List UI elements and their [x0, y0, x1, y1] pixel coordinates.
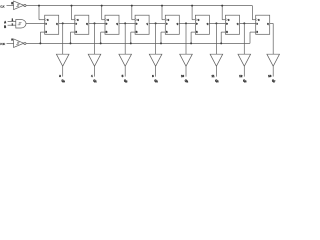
- wire Q1 from FF2: [89, 22, 105, 24]
- junction Q6 tap: [243, 22, 245, 24]
- junction clock bus / FF7: [221, 5, 223, 7]
- svg-text:D: D: [256, 23, 258, 25]
- wire buffer to pad Q2: [124, 66, 126, 76]
- svg-text:Q: Q: [116, 23, 118, 25]
- svg-text:C: C: [137, 20, 139, 22]
- pin 3 (Q0): [59, 74, 61, 78]
- inverter U3 (reset Schmitt inverter): [14, 39, 24, 48]
- buffer U1 (clock Schmitt buffer): [14, 1, 24, 10]
- node Q1 label: [93, 79, 96, 84]
- wire clock tap to FF1 CP: [39, 6, 45, 20]
- junction reset bus / FF4: [130, 42, 132, 44]
- output buffer U7: [149, 54, 162, 66]
- node Q0 label: [61, 79, 64, 84]
- flip-flop FF4: [135, 15, 149, 34]
- wire clock tap to FF2 CP: [72, 6, 75, 20]
- flip-flop FF5: [165, 15, 179, 34]
- wire clock tap to FF4 CP: [132, 6, 135, 20]
- svg-text:R: R: [226, 32, 228, 34]
- input CLK: [0, 4, 5, 8]
- flip-flop FF6: [195, 15, 209, 34]
- pin 9 (MR): [11, 37, 13, 41]
- wire reset tap to FF6 R: [191, 32, 195, 43]
- svg-text:D: D: [136, 23, 138, 25]
- svg-text:R: R: [106, 32, 108, 34]
- svg-text:R: R: [196, 32, 198, 34]
- junction clock bus / FF4: [131, 5, 133, 7]
- junction Q1 tap: [94, 22, 96, 24]
- node Q4 label: [185, 79, 189, 84]
- svg-text:Q2: Q2: [124, 79, 127, 83]
- junction reset bus / FF3: [100, 42, 102, 44]
- svg-text:R: R: [45, 32, 47, 34]
- svg-text:R: R: [76, 32, 78, 34]
- junction reset bus / FF7: [220, 42, 222, 44]
- svg-text:CLK: CLK: [0, 4, 5, 8]
- svg-text:Q7: Q7: [272, 79, 275, 83]
- svg-text:C: C: [47, 20, 49, 22]
- wire Q1 down to output buffer: [94, 23, 96, 54]
- wire Q2 from FF3: [119, 22, 135, 24]
- junction clock bus / FF6: [191, 5, 193, 7]
- wire Q7 from FF8: [270, 22, 274, 24]
- wire buffer to pad Q3: [155, 66, 157, 76]
- svg-text:Q: Q: [237, 23, 239, 25]
- junction Q2 tap: [124, 22, 126, 24]
- svg-text:D: D: [226, 23, 228, 25]
- junction Q0 tap: [62, 22, 64, 24]
- node Q6 label: [243, 79, 246, 84]
- wire Q3 down to output buffer: [155, 23, 157, 54]
- svg-text:C: C: [228, 20, 230, 22]
- wire clock tap to FF5 CP: [162, 6, 165, 20]
- wire A to AND gate: [8, 21, 16, 23]
- wire buffer to pad Q0: [62, 66, 64, 76]
- svg-text:Q4: Q4: [185, 79, 189, 83]
- svg-text:Q3: Q3: [154, 79, 157, 83]
- wire clock tap to FF6 CP: [192, 6, 195, 20]
- wire clock tap to FF3 CP: [102, 6, 105, 20]
- wire buffer to pad Q5: [215, 66, 217, 76]
- junction clock bus / FF1: [38, 5, 40, 7]
- svg-text:Q6: Q6: [243, 79, 246, 83]
- junction reset bus / FF1: [39, 42, 41, 44]
- bubble on U1 output: [24, 4, 26, 6]
- svg-text:C: C: [258, 20, 260, 22]
- wire AND gate to FF1 D: [26, 22, 45, 24]
- flip-flop FF8: [256, 15, 270, 34]
- svg-text:12: 12: [239, 74, 243, 78]
- wire buffer to pad Q4: [185, 66, 187, 76]
- wire Q5 down to output buffer: [215, 23, 217, 54]
- output buffer U4: [56, 54, 69, 66]
- pin 1 (A): [12, 18, 14, 22]
- pin 2 (B): [12, 22, 14, 26]
- wire CLK to buffer U1: [7, 5, 14, 7]
- junction clock bus / FF2: [71, 5, 73, 7]
- junction Q3 tap: [155, 22, 157, 24]
- pin 11 (Q5): [211, 74, 215, 78]
- junction clock bus / FF3: [101, 5, 103, 7]
- output buffer U6: [119, 54, 132, 66]
- flip-flop FF7: [226, 15, 240, 34]
- svg-text:5: 5: [122, 74, 124, 78]
- junction reset bus / FF6: [190, 42, 192, 44]
- svg-text:2: 2: [12, 22, 14, 26]
- svg-text:B: B: [4, 25, 6, 29]
- svg-text:D: D: [106, 23, 108, 25]
- flip-flop FF3: [105, 15, 119, 34]
- svg-text:Q: Q: [146, 23, 148, 25]
- svg-text:4: 4: [91, 74, 93, 78]
- svg-text:11: 11: [212, 74, 215, 78]
- wire Q4 from FF5: [179, 22, 195, 24]
- svg-text:A: A: [4, 20, 6, 24]
- svg-text:Q5: Q5: [215, 79, 218, 83]
- wire reset tap to FF8 R: [250, 32, 256, 43]
- clock bus wire: [26, 5, 252, 7]
- svg-text:D: D: [166, 23, 168, 25]
- svg-text:R: R: [256, 32, 258, 34]
- wire Q7 down to output buffer: [272, 23, 274, 54]
- wire Q4 down to output buffer: [185, 23, 187, 54]
- node Q7 label: [272, 79, 275, 84]
- wire Q6 from FF7: [240, 22, 256, 24]
- input POR: [0, 42, 5, 46]
- node Q2 label: [124, 79, 127, 84]
- svg-text:Q: Q: [267, 23, 269, 25]
- svg-text:8: 8: [11, 1, 13, 5]
- input A: [4, 20, 6, 24]
- AND gate U2: [16, 20, 26, 29]
- pin 13 (Q7): [268, 74, 272, 78]
- wire buffer to pad Q6: [243, 66, 245, 76]
- svg-text:C: C: [198, 20, 200, 22]
- svg-text:10: 10: [181, 74, 185, 78]
- svg-text:POR: POR: [0, 42, 5, 46]
- output buffer U10: [238, 54, 251, 66]
- flip-flop FF1: [45, 15, 59, 34]
- junction reset bus / FF5: [160, 42, 162, 44]
- svg-text:C: C: [77, 20, 79, 22]
- svg-text:Q1: Q1: [93, 79, 96, 83]
- pin 4 (Q1): [91, 74, 93, 78]
- svg-text:6: 6: [152, 74, 154, 78]
- svg-text:R: R: [136, 32, 138, 34]
- bubble on U3 output: [24, 42, 26, 44]
- pin 12 (Q6): [239, 74, 243, 78]
- svg-text:Q: Q: [177, 23, 179, 25]
- junction clock bus / FF5: [161, 5, 163, 7]
- wire Q2 down to output buffer: [124, 23, 126, 54]
- output buffer U9: [210, 54, 223, 66]
- pin 6 (Q3): [152, 74, 154, 78]
- wire reset tap to FF7 R: [221, 32, 225, 43]
- svg-text:C: C: [107, 20, 109, 22]
- wire clock tap to FF8 CP: [252, 6, 255, 20]
- input B: [4, 25, 6, 29]
- wire reset tap to FF3 R: [101, 32, 105, 43]
- wire reset tap to FF1 R: [40, 32, 44, 43]
- junction reset bus / FF2: [70, 42, 72, 44]
- pin 5 (Q2): [122, 74, 124, 78]
- svg-text:3: 3: [59, 74, 61, 78]
- node Q3 label: [154, 79, 157, 84]
- wire buffer to pad Q1: [94, 66, 96, 76]
- reset bus wire: [26, 42, 250, 44]
- wire Q0 down to output buffer: [62, 23, 64, 54]
- wire B to AND gate: [8, 24, 16, 26]
- wire Q5 from FF6: [209, 22, 225, 24]
- svg-text:D: D: [196, 23, 198, 25]
- svg-text:13: 13: [268, 74, 272, 78]
- output buffer U8: [180, 54, 193, 66]
- wire buffer to pad Q7: [272, 66, 274, 76]
- svg-text:Q0: Q0: [61, 79, 64, 83]
- output buffer U5: [88, 54, 101, 66]
- svg-text:D: D: [45, 23, 47, 25]
- wire Q6 down to output buffer: [243, 23, 245, 54]
- output buffer U11: [267, 54, 280, 66]
- pin 8 (CP): [11, 1, 13, 5]
- svg-text:Q: Q: [207, 23, 209, 25]
- node Q5 label: [215, 79, 218, 84]
- wire reset tap to FF2 R: [71, 32, 75, 43]
- flip-flop FF2: [75, 15, 89, 34]
- wire reset tap to FF4 R: [131, 32, 135, 43]
- wire Q0 from FF1: [59, 22, 75, 24]
- pin 10 (Q4): [181, 74, 185, 78]
- junction Q4 tap: [185, 22, 187, 24]
- svg-text:C: C: [168, 20, 170, 22]
- wire Q3 from FF4: [149, 22, 165, 24]
- svg-text:D: D: [76, 23, 78, 25]
- junction Q5 tap: [215, 22, 217, 24]
- wire POR to inverter U3: [7, 42, 14, 44]
- svg-text:Q: Q: [86, 23, 88, 25]
- wire reset tap to FF5 R: [161, 32, 165, 43]
- svg-text:R: R: [166, 32, 168, 34]
- svg-text:Q: Q: [56, 23, 58, 25]
- svg-text:9: 9: [11, 38, 13, 42]
- wire clock tap to FF7 CP: [222, 6, 225, 20]
